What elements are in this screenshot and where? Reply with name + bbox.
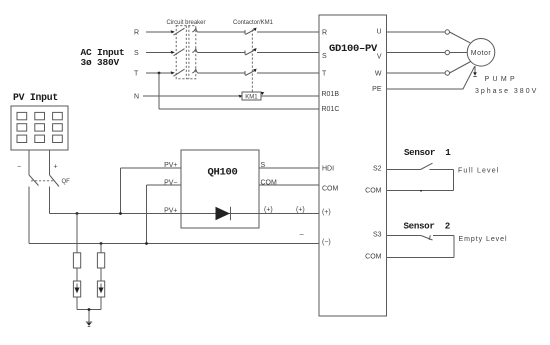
svg-text:Empty Level: Empty Level [459, 236, 508, 243]
svg-text:R: R [322, 29, 327, 36]
svg-text:+: + [54, 164, 58, 171]
svg-text:T: T [322, 70, 327, 77]
svg-text:S3: S3 [373, 232, 382, 239]
svg-text:−: − [17, 164, 21, 171]
svg-text:QH100: QH100 [208, 167, 238, 179]
svg-text:(+): (+) [264, 207, 273, 214]
svg-text:Contactor/KM1: Contactor/KM1 [233, 20, 274, 26]
svg-text:S2: S2 [373, 166, 382, 173]
svg-text:PV Input: PV Input [13, 92, 58, 103]
svg-text:V: V [377, 54, 382, 61]
svg-text:T: T [134, 71, 139, 78]
svg-text:S: S [322, 53, 327, 60]
svg-text:3phase 380V: 3phase 380V [475, 88, 538, 95]
svg-text:(+): (+) [296, 207, 305, 214]
svg-text:GD100–PV: GD100–PV [329, 43, 378, 55]
svg-text:HDI: HDI [322, 166, 334, 173]
svg-text:QF: QF [62, 179, 71, 185]
svg-text:KM1: KM1 [245, 94, 258, 100]
svg-text:PE: PE [372, 86, 382, 93]
svg-text:Sensor 1: Sensor 1 [404, 147, 451, 158]
svg-text:(−): (−) [322, 239, 331, 246]
svg-text:R01C: R01C [322, 106, 340, 113]
svg-text:(+): (+) [322, 209, 331, 216]
svg-text:W: W [375, 71, 382, 78]
svg-text:Full Level: Full Level [458, 167, 499, 174]
svg-text:N: N [134, 94, 139, 101]
svg-text:COM: COM [365, 188, 382, 195]
svg-text:COM: COM [322, 186, 339, 193]
svg-text:Motor: Motor [471, 50, 492, 57]
svg-text:COM: COM [365, 254, 382, 261]
svg-text:3ø 380V: 3ø 380V [81, 57, 120, 68]
svg-text:Circuit breaker: Circuit breaker [167, 20, 206, 26]
svg-text:R: R [134, 30, 139, 37]
svg-text:Sensor 2: Sensor 2 [404, 221, 450, 232]
svg-text:R01B: R01B [322, 91, 340, 98]
svg-text:S: S [134, 50, 139, 57]
svg-text:PUMP: PUMP [485, 76, 518, 83]
svg-text:U: U [376, 29, 381, 36]
